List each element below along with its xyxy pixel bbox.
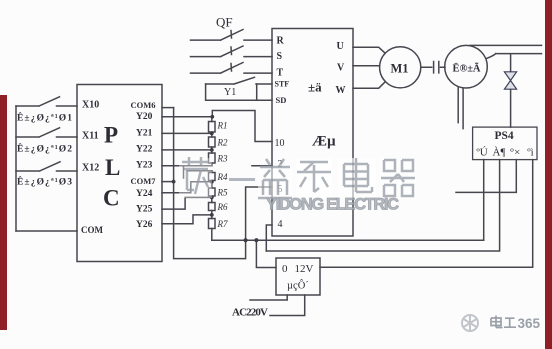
- svg-text:Y26: Y26: [136, 220, 153, 230]
- svg-text:T: T: [277, 68, 284, 79]
- wire COM bus vertical: [174, 108, 272, 259]
- wire COM6: [162, 107, 174, 109]
- switch S3 (X12 input): [16, 162, 77, 171]
- svg-text:P: P: [104, 123, 118, 148]
- resistor R2: [209, 137, 216, 147]
- wire Y24 jog: [162, 182, 212, 193]
- wire Y21: [162, 132, 212, 134]
- relay contact Y1 on STF: [206, 77, 272, 84]
- svg-text:Æµ: Æµ: [312, 134, 336, 150]
- junction dots: [172, 115, 259, 242]
- svg-text:W: W: [336, 85, 346, 96]
- svg-text:S: S: [277, 51, 283, 62]
- node Y21 tap: [210, 132, 214, 136]
- svg-text:L: L: [105, 155, 120, 180]
- breaker QF pole T: [191, 63, 273, 74]
- PLC U0 box: [77, 85, 162, 262]
- svg-text:12V: 12V: [295, 263, 314, 275]
- svg-text:Y1: Y1: [224, 87, 236, 98]
- svg-text:X11: X11: [82, 131, 99, 142]
- svg-text:QF: QF: [216, 15, 233, 30]
- svg-text:U: U: [337, 41, 344, 52]
- wire Y26 jog: [162, 215, 212, 224]
- svg-text:R: R: [277, 36, 285, 47]
- node 0V pin5 join: [244, 238, 248, 242]
- svg-text:STF: STF: [275, 80, 290, 89]
- svg-text:0: 0: [282, 263, 288, 275]
- pump suction funnel: [458, 88, 463, 129]
- pipe outlet: [470, 44, 542, 46]
- inverter U1 box: [272, 29, 353, 237]
- svg-text:SD: SD: [276, 95, 287, 105]
- svg-text:°×: °×: [510, 147, 521, 159]
- svg-text:AC220V: AC220V: [232, 307, 268, 319]
- svg-text:X10: X10: [82, 99, 99, 110]
- svg-text:V: V: [337, 63, 345, 74]
- svg-text:4: 4: [278, 219, 283, 230]
- svg-text:PS4: PS4: [495, 130, 514, 142]
- red side bar left: [0, 95, 7, 330]
- logo icon: [462, 315, 478, 331]
- svg-text:Ê±¿Ø¿ª¹Ø3: Ê±¿Ø¿ª¹Ø3: [17, 176, 72, 188]
- resistor R4: [209, 173, 216, 181]
- wire PS4 lead 1 (black): [483, 160, 485, 241]
- breaker QF pole R: [191, 30, 273, 41]
- red side bar right: [545, 0, 552, 349]
- wire Y25 jog: [162, 197, 212, 209]
- svg-text:R6: R6: [217, 202, 228, 212]
- watermark glyph qi: [380, 158, 416, 199]
- svg-text:COM: COM: [81, 225, 104, 235]
- svg-text:Y25: Y25: [136, 205, 153, 215]
- svg-text:365: 365: [518, 316, 541, 331]
- wire V phase: [353, 65, 380, 67]
- svg-text:C: C: [103, 186, 120, 211]
- svg-text:R1: R1: [217, 121, 228, 131]
- resistor R3: [209, 153, 216, 163]
- watermark overlay: [179, 157, 416, 214]
- node 0V supply join: [254, 238, 258, 242]
- node Y20 tap: [210, 115, 214, 119]
- wire W phase: [353, 82, 385, 89]
- wire PS4 lead 4 (red) to 12V: [320, 160, 533, 268]
- node Y25 tap: [210, 196, 214, 200]
- watermark glyph dong: [296, 158, 332, 199]
- wire 0V to supply 0 terminal: [256, 240, 276, 267]
- svg-text:R7: R7: [217, 219, 228, 229]
- node Y26 tap: [210, 213, 214, 217]
- wire ladder top to pin 10: [212, 111, 272, 142]
- svg-text:COM6: COM6: [131, 100, 156, 110]
- node COM7 join: [172, 180, 176, 184]
- switch S2 (X11 input): [16, 128, 77, 137]
- svg-text:ºÚ: ºÚ: [476, 147, 487, 159]
- svg-text:R3: R3: [217, 154, 228, 164]
- logo dianGong365 bottom right: [462, 315, 541, 331]
- motor M1 circle: [380, 47, 421, 88]
- pipe branch to valve: [486, 54, 541, 72]
- svg-text:Ê±¿Ø¿ª¹Ø2: Ê±¿Ø¿ª¹Ø2: [17, 143, 72, 155]
- resistor R6: [209, 203, 216, 211]
- svg-text:Y20: Y20: [136, 112, 153, 122]
- svg-text:10: 10: [275, 138, 285, 149]
- coupling shaft: [421, 62, 445, 73]
- pump P1 circle: [445, 45, 488, 88]
- wire inverter pin 4: [266, 225, 272, 251]
- wire AC220V line 2: [270, 295, 305, 316]
- valve V1: [504, 72, 516, 89]
- node Y24 tap: [210, 180, 214, 184]
- wire PS4 lead 3 (white): [456, 160, 516, 193]
- logo glyph gong: [504, 318, 516, 327]
- svg-text:X12: X12: [82, 163, 99, 174]
- svg-text:R4: R4: [217, 172, 228, 182]
- watermark glyph su: [179, 157, 212, 198]
- wire SD: [257, 99, 272, 101]
- wire Y23 to R4 jog: [184, 166, 212, 178]
- pressure sensor PS4 box: [473, 127, 537, 160]
- wire PS4 lead 2 (blue): [266, 160, 499, 251]
- svg-text:Ë®±Ã: Ë®±Ã: [453, 62, 481, 75]
- svg-text:Y22: Y22: [136, 145, 153, 155]
- wire AC220V line 1: [250, 295, 287, 300]
- node left bus: [15, 106, 17, 231]
- svg-text:M1: M1: [391, 62, 409, 76]
- Y1 box: [206, 84, 257, 100]
- svg-text:ºì: ºì: [527, 147, 533, 159]
- logo glyph dian: [491, 316, 503, 328]
- node Y22 tap: [210, 148, 214, 152]
- wire Y23 to inverter pin 2: [162, 165, 272, 167]
- wire Y22: [162, 149, 212, 151]
- power supply PSU box: [276, 258, 320, 295]
- svg-text:Ê±¿Ø¿ª¹Ø1: Ê±¿Ø¿ª¹Ø1: [17, 112, 72, 124]
- wire U phase: [353, 47, 385, 53]
- switch S1 (X10 input): [16, 97, 77, 106]
- svg-text:R2: R2: [217, 138, 228, 148]
- watermark dash: [229, 178, 255, 181]
- svg-text:COM7: COM7: [131, 176, 157, 186]
- svg-text:±ä: ±ä: [308, 80, 322, 95]
- svg-text:Y21: Y21: [136, 128, 153, 138]
- wire COM7: [162, 181, 174, 183]
- watermark glyph yi: [258, 159, 292, 199]
- svg-text:YIDONG ELECTRIC: YIDONG ELECTRIC: [266, 196, 399, 214]
- svg-text:Y24: Y24: [136, 189, 153, 199]
- svg-text:R5: R5: [217, 188, 228, 198]
- wire 0V bus bottom: [212, 239, 484, 241]
- resistor R7: [209, 219, 216, 229]
- pipe valve to PS4: [510, 90, 512, 128]
- svg-text:µçÔ´: µçÔ´: [287, 280, 309, 292]
- wire Y20: [162, 116, 212, 118]
- watermark glyph dian: [338, 158, 376, 199]
- wire COM bottom: [16, 230, 77, 232]
- svg-text:Y23: Y23: [136, 161, 153, 171]
- svg-text:À¶: À¶: [493, 147, 506, 159]
- breaker QF pole S: [191, 46, 273, 57]
- resistor R5: [209, 188, 216, 196]
- resistor R1: [209, 122, 216, 133]
